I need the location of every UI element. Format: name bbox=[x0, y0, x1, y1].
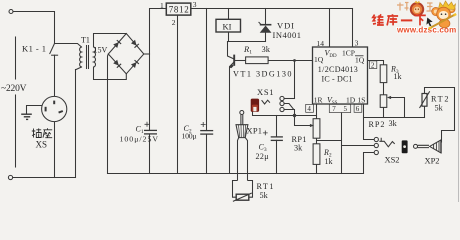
svg-text:T1: T1 bbox=[81, 36, 90, 45]
svg-text:3: 3 bbox=[355, 39, 359, 48]
node junction dot bbox=[293, 114, 296, 117]
wire VDI branch bbox=[265, 9, 267, 25]
svg-text:14: 14 bbox=[317, 39, 325, 48]
wire RP2 wiper loop bbox=[390, 98, 405, 118]
svg-text:1Q: 1Q bbox=[355, 56, 365, 65]
svg-text:IC - DC1: IC - DC1 bbox=[322, 74, 353, 83]
diode D2 bridge top-right bbox=[131, 40, 139, 48]
wire XS1 top contact bbox=[284, 98, 294, 100]
svg-text:KI: KI bbox=[223, 22, 232, 32]
wire secondary top to bridge bbox=[94, 34, 127, 48]
wire XS1 bottom contact to node bbox=[284, 110, 294, 116]
wire R2 to rail bbox=[316, 164, 318, 173]
wire RP1 to R2 bbox=[316, 138, 318, 144]
plug XP1 tip circle bbox=[240, 111, 244, 115]
svg-text:IN4001: IN4001 bbox=[273, 30, 302, 40]
svg-text:RP2: RP2 bbox=[369, 120, 385, 129]
svg-text:5: 5 bbox=[344, 105, 348, 113]
wire socket left pin to ground bbox=[27, 106, 42, 114]
socket XS pins bbox=[46, 101, 63, 113]
jack XS2 sleeve body bbox=[402, 140, 408, 153]
plug XP1 cup bbox=[236, 125, 248, 138]
svg-text:XP2: XP2 bbox=[425, 156, 440, 166]
transformer core bbox=[86, 46, 88, 69]
svg-text:5k: 5k bbox=[435, 104, 444, 113]
resistor R2 bbox=[313, 144, 320, 165]
wire IC pin3 bbox=[352, 9, 354, 48]
IC pin6 number box bbox=[354, 104, 362, 112]
thermistor RT1 loop bbox=[233, 181, 253, 198]
wire primary bottom lead bbox=[76, 67, 82, 70]
wire primary bottom down to mains bbox=[75, 70, 77, 178]
svg-text:4: 4 bbox=[307, 105, 311, 113]
svg-text:1CP: 1CP bbox=[342, 49, 355, 58]
wire DC+ down through C1 to rail bbox=[149, 54, 151, 130]
resistor R3 bbox=[380, 65, 387, 83]
svg-text:XS2: XS2 bbox=[385, 155, 400, 165]
svg-text:3k: 3k bbox=[294, 144, 303, 153]
ground symbol (mains earth) bbox=[21, 114, 32, 119]
svg-text:RT2: RT2 bbox=[431, 95, 449, 104]
capacitor C2 plates bbox=[200, 131, 213, 135]
logo emblem circle bbox=[410, 2, 424, 16]
IC pin2 number box bbox=[369, 61, 376, 69]
transistor VT1 emitter arrow bbox=[229, 64, 233, 68]
transformer T1 primary winding bbox=[80, 47, 82, 67]
wire C3 branch bbox=[276, 116, 278, 137]
relay KI box bbox=[216, 19, 241, 32]
wire switch to transformer primary bbox=[55, 44, 82, 48]
wire RT2 top loop bbox=[425, 88, 455, 143]
page border line right bbox=[458, 0, 460, 202]
wire XS1 node line bbox=[253, 112, 317, 116]
wire bridge DC- down to ground rail bbox=[107, 54, 110, 174]
capacitor C1 plus sign bbox=[145, 122, 150, 127]
wire C2 branch bbox=[206, 9, 208, 131]
svg-text:1/2CD4013: 1/2CD4013 bbox=[318, 65, 358, 74]
label 插座 (glyph strokes) bbox=[32, 128, 52, 138]
potentiometer RP2 wiper arrow bbox=[387, 96, 391, 99]
svg-text:1S: 1S bbox=[358, 95, 366, 104]
bridge rectifier diamond bbox=[108, 34, 144, 74]
wire RP1-R2 junction to ground line bbox=[317, 140, 342, 142]
plug XP2 cup bbox=[430, 140, 441, 153]
mains terminal top bbox=[9, 10, 13, 14]
svg-text:1k: 1k bbox=[394, 72, 402, 81]
wire bridge DC+ up to 7812 pin1 bbox=[150, 9, 167, 55]
jack XS1 contact circles bbox=[280, 96, 284, 100]
mains terminal bottom bbox=[8, 175, 12, 179]
svg-text:VT1 3DG130: VT1 3DG130 bbox=[233, 70, 292, 79]
wire RP1 wiper from node dot bbox=[295, 116, 312, 126]
faint slogan chars bbox=[397, 3, 433, 12]
thermistor RT1 body bbox=[236, 194, 249, 200]
svg-text:XP1: XP1 bbox=[247, 126, 263, 136]
wire VT1 base to R1 bbox=[235, 60, 245, 62]
capacitor C3 plates bbox=[271, 137, 283, 141]
diode VDI bbox=[259, 22, 272, 33]
svg-text:1: 1 bbox=[160, 1, 164, 10]
diode D4 bridge bottom-right bbox=[131, 60, 139, 68]
transistor VT1 base bar bbox=[233, 55, 235, 66]
wire mains top to switch bbox=[13, 12, 55, 44]
plug XP2 tip circle bbox=[414, 144, 418, 148]
cursor arrow bbox=[426, 18, 432, 27]
resistor R1 bbox=[246, 57, 269, 64]
wire XS1 middle contact bbox=[284, 104, 294, 110]
wire XS2 bottom contact to rail bbox=[364, 153, 375, 174]
wire IC pin6 down to XS2 top bbox=[364, 104, 375, 140]
IC pins 7 5 number box bbox=[329, 104, 350, 112]
wire R3 to RP2 bbox=[383, 83, 385, 95]
svg-text:1Q: 1Q bbox=[314, 55, 324, 64]
svg-text:RT1: RT1 bbox=[257, 182, 274, 191]
socket XS body bbox=[42, 96, 67, 121]
thermistor RT2 diagonal bbox=[420, 91, 430, 108]
IC DC1 box bbox=[313, 47, 368, 104]
svg-text:2: 2 bbox=[371, 61, 375, 69]
switch K1-1 bbox=[50, 44, 55, 54]
wire KI bottom to collector node bbox=[228, 41, 266, 43]
jack XS2 contact circles bbox=[374, 137, 378, 141]
svg-text:7812: 7812 bbox=[169, 5, 189, 15]
svg-text:XS1: XS1 bbox=[257, 87, 274, 97]
svg-text:K1 - 1: K1 - 1 bbox=[22, 44, 46, 54]
overline of 1Qbar bbox=[355, 55, 364, 57]
wire 7812 pin2 to rail bbox=[177, 15, 179, 173]
jack XS1 spring contact bbox=[262, 100, 270, 104]
svg-text:1k: 1k bbox=[325, 157, 333, 166]
potentiometer RP1 wiper arrow bbox=[310, 124, 314, 127]
svg-text:22μ: 22μ bbox=[256, 152, 269, 161]
thermistor RT2 body bbox=[422, 94, 427, 107]
watermark logo group bbox=[373, 1, 457, 35]
svg-text:7: 7 bbox=[332, 105, 336, 113]
plug XP2 stem bbox=[418, 145, 429, 147]
plug XP1 shaft bbox=[238, 138, 248, 181]
wire secondary bottom to bridge bbox=[94, 67, 127, 80]
wire junction down to XS1 top contact bbox=[284, 61, 294, 99]
wire bridge DC+ stub bbox=[144, 53, 150, 55]
wire bottom mains bbox=[13, 177, 76, 179]
potentiometer RP2 body bbox=[380, 95, 387, 108]
svg-text:5k: 5k bbox=[260, 191, 269, 200]
plug XP1 stem bbox=[241, 115, 243, 125]
wire relay KI branch bbox=[228, 9, 230, 20]
jack XS2 spring contact bbox=[379, 138, 394, 147]
svg-text:1D: 1D bbox=[346, 95, 356, 104]
potentiometer RP1 body bbox=[313, 119, 320, 139]
red brand text 维库一下 (glyph strokes) bbox=[373, 14, 426, 25]
svg-text:6: 6 bbox=[356, 105, 360, 113]
svg-text:~220V: ~220V bbox=[1, 84, 27, 94]
thermistor RT1 diagonal bbox=[233, 193, 252, 201]
IC pin4 number box bbox=[306, 104, 314, 112]
wire RP2 bottom bbox=[383, 107, 385, 117]
mains left rail bbox=[15, 37, 17, 79]
svg-text:VDI: VDI bbox=[277, 21, 294, 31]
junction dot pin1 wire bbox=[293, 59, 296, 62]
svg-text:3: 3 bbox=[193, 0, 197, 9]
wire VT1 emitter down to rail bbox=[230, 62, 234, 173]
svg-text:2: 2 bbox=[172, 18, 176, 27]
diode D1 bridge top-left bbox=[113, 40, 121, 48]
wire IC pin2 to R3 bbox=[368, 61, 384, 65]
svg-text:1R: 1R bbox=[314, 95, 323, 104]
svg-text:XS: XS bbox=[36, 140, 48, 150]
diode D3 bridge bottom-left bbox=[113, 60, 121, 68]
jack XS1 red body bbox=[251, 99, 259, 112]
wire VT1 collector riser bbox=[228, 42, 234, 59]
capacitor C2 plus sign bbox=[201, 122, 206, 127]
transformer T1 secondary winding bbox=[94, 47, 96, 67]
wire socket bottom pin down bbox=[54, 122, 56, 178]
capacitor C1 plates bbox=[144, 130, 157, 134]
wire IC pin14 bbox=[329, 9, 331, 48]
mascot monkey bbox=[429, 1, 457, 29]
regulator 7812 box bbox=[166, 3, 191, 15]
svg-text:3k: 3k bbox=[262, 44, 271, 54]
wire RT2 bottom stub bbox=[424, 106, 426, 117]
wire node line pin6 RP2 RT2 bbox=[364, 117, 425, 119]
wire R1 to IC pin1 bbox=[268, 60, 312, 62]
wire IC pin4 down to RP1 bbox=[316, 104, 318, 119]
svg-text:3k: 3k bbox=[389, 119, 398, 128]
svg-text:100μ: 100μ bbox=[182, 132, 197, 141]
wire XS2 middle contact to ground line bbox=[342, 145, 375, 147]
capacitor C3 plus sign bbox=[263, 131, 268, 136]
ground rail bbox=[108, 173, 364, 175]
svg-text:15V: 15V bbox=[94, 46, 108, 55]
+12V top rail from 7812 pin3 bbox=[191, 8, 353, 10]
wire IC pins 7 5 to ground rail bbox=[341, 113, 343, 174]
svg-text:100μ/25V: 100μ/25V bbox=[120, 135, 159, 144]
